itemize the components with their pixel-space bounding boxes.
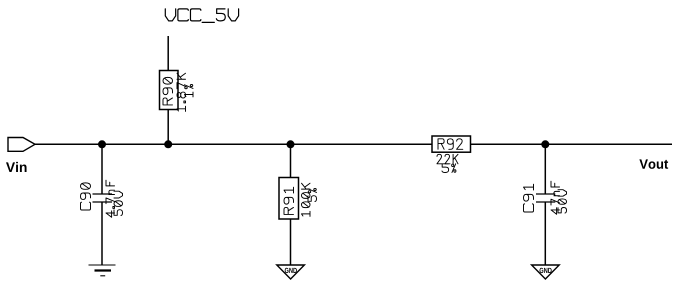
label value 22K (437, 154, 458, 164)
label GND (285, 268, 297, 273)
label designator C91 (524, 184, 534, 212)
wire: main net down to C91 top plate (544, 144, 546, 194)
power net label VCC_5V (165, 9, 238, 22)
ground triangle (277, 265, 305, 279)
label voltage 50V (558, 190, 567, 213)
label tolerance 5% (442, 164, 456, 173)
node: junction R91/main (287, 140, 295, 148)
label tolerance 1% (185, 84, 194, 96)
wire: R90 bottom to main net (167, 110, 169, 145)
ground GND below R91 (277, 265, 305, 279)
resistor R91 (279, 178, 317, 220)
label value 100K (302, 183, 311, 216)
label value 47nF (551, 181, 560, 214)
node: junction C91/main (541, 140, 549, 148)
node: junction C90/main (98, 140, 106, 148)
capacitor C91 (524, 181, 567, 214)
label designator R92 (438, 139, 463, 150)
capacitor C90 (81, 180, 123, 217)
resistor body R92 (432, 136, 471, 152)
label designator R91 (284, 187, 294, 214)
resistor R92 (432, 136, 471, 173)
label designator R90 (163, 77, 173, 105)
resistor body R91 (279, 178, 299, 220)
wire: main net down to R91 top (290, 144, 292, 177)
label tolerance 5% (308, 188, 317, 201)
label Vout (639, 159, 668, 168)
resistor R90 (160, 71, 194, 112)
resistor body R90 (160, 71, 179, 110)
label GND (540, 268, 552, 273)
label voltage 50V (114, 191, 123, 215)
wire: R91 bottom to GND symbol (290, 219, 292, 265)
label Vin (6, 162, 27, 172)
capacitor plates C90 (93, 193, 113, 195)
ground (earth) below C90 (89, 265, 116, 276)
wire: main net down to C90 top plate (101, 144, 103, 194)
label designator C90 (81, 183, 91, 210)
wire: main horizontal net Vin to Vout (35, 143, 672, 145)
wire: VCC_5V to R90 top (167, 36, 169, 71)
port Vin (8, 138, 35, 152)
label value 1.87K (177, 73, 186, 111)
ground triangle (532, 265, 560, 279)
node: junction R90/main (164, 140, 172, 148)
wire: C91 bottom plate to GND symbol (544, 202, 546, 265)
label value 4.7nF (106, 180, 115, 217)
ground GND below C91 (532, 265, 560, 279)
wire: C90 bottom plate to earth ground (101, 202, 103, 265)
capacitor plates C91 (536, 193, 555, 195)
